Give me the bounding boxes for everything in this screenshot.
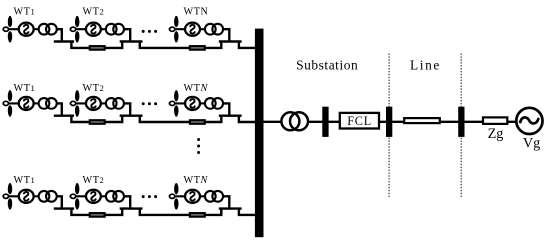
grid impedance Zg rect — [483, 117, 507, 124]
wire WT2 output drop (row 1) — [124, 29, 130, 42]
svg-text:WT2: WT2 — [83, 7, 105, 18]
junction bar at WT1 (row 2) — [54, 114, 74, 116]
svg-text:WTN: WTN — [184, 175, 209, 186]
svg-text:WT2: WT2 — [83, 175, 105, 186]
ellipsis dots between WT2 and WTN (row 1) — [142, 30, 145, 33]
svg-text:WT2: WT2 — [83, 83, 105, 94]
induction generator of WT1 (row 1) — [19, 23, 34, 36]
junction bar at WT2 (row 3) — [120, 207, 143, 209]
vertical ellipsis dots (more feeders) — [197, 138, 200, 141]
induction generator of WTN (row 1) — [185, 23, 200, 36]
breaker bar B3 (line receiving end) — [458, 107, 464, 137]
unit transformer of WT1 (row 1) — [39, 24, 50, 35]
induction generator of WT2 (row 1) — [86, 23, 101, 36]
wire WT2 output drop (row 3) — [124, 196, 130, 209]
feeder wire WTN to bus (row 1) — [239, 42, 257, 48]
wire generator to transformer (WTN row 2) — [200, 102, 206, 104]
cable impedance rect WT2-WTN (row 2) — [190, 120, 205, 124]
junction bar at WTN (row 3) — [219, 207, 242, 209]
feeder wire WTN to bus (row 3) — [239, 209, 257, 215]
junction bar at WT2 (row 2) — [120, 114, 143, 116]
grid source Vg circle — [516, 108, 542, 134]
junction bar at WTN (row 1) — [219, 40, 242, 42]
junction bar at WT1 (row 1) — [54, 40, 74, 42]
unit transformer of WT2 (row 3) — [106, 191, 117, 202]
wire generator to transformer (WTN row 1) — [200, 28, 206, 30]
svg-text:WT1: WT1 — [14, 7, 36, 18]
breaker bar B2 (line sending end) — [386, 107, 392, 137]
induction generator of WT1 (row 3) — [19, 190, 34, 203]
wire WTN output drop (row 3) — [223, 196, 229, 209]
feeder cable wire WT2-WTN (row 1) — [140, 42, 222, 48]
wind turbine rotor WT2 (row 2) — [70, 102, 87, 104]
ellipsis dots between WT2 and WTN (row 2) — [142, 102, 145, 105]
unit transformer of WTN (row 2) — [205, 98, 216, 109]
junction bar at WT2 (row 1) — [120, 40, 143, 42]
unit transformer of WTN (row 3) — [205, 191, 216, 202]
FCL box — [340, 113, 379, 129]
junction bar at WT1 (row 3) — [54, 207, 74, 209]
wire WTN output drop (row 2) — [223, 103, 229, 116]
feeder cable wire WT1-WT2 (row 3) — [71, 209, 122, 215]
wire generator to transformer (WTN row 3) — [200, 195, 206, 197]
unit transformer of WT2 (row 2) — [106, 98, 117, 109]
cable impedance rect WT2-WTN (row 3) — [190, 213, 205, 217]
wire WT1 output drop (row 1) — [57, 29, 62, 42]
wire generator to transformer (WT1 row 1) — [33, 28, 39, 30]
svg-text:WT1: WT1 — [14, 175, 36, 186]
feeder cable wire WT1-WT2 (row 2) — [71, 116, 122, 122]
wire WT1 output drop (row 3) — [57, 196, 62, 209]
feeder wire WTN to bus (row 2) — [239, 116, 257, 122]
collector busbar — [255, 29, 264, 238]
wind turbine rotor WTN (row 3) — [169, 195, 186, 197]
cable impedance rect WT1-WT2 (row 1) — [90, 46, 105, 50]
ellipsis dots between WT2 and WTN (row 3) — [142, 195, 145, 198]
wind turbine rotor WT2 (row 3) — [70, 195, 87, 197]
svg-text:Zg: Zg — [488, 126, 504, 142]
wire transformer to grid source — [308, 121, 517, 123]
induction generator of WT1 (row 2) — [19, 97, 34, 110]
dashed boundary line (substation/line) — [388, 54, 390, 199]
wind turbine rotor WT1 (row 2) — [2, 102, 19, 104]
wire bus to substation transformer — [264, 121, 282, 123]
cable impedance rect WT2-WTN (row 1) — [190, 46, 205, 50]
transmission line impedance rect — [404, 118, 440, 123]
svg-text:FCL: FCL — [347, 114, 372, 128]
cable impedance rect WT1-WT2 (row 2) — [90, 120, 105, 124]
feeder cable wire WT1-WT2 (row 1) — [71, 42, 122, 48]
wind turbine rotor WT2 (row 1) — [70, 28, 87, 30]
wire generator to transformer (WT2 row 2) — [101, 102, 107, 104]
induction generator of WT2 (row 3) — [86, 190, 101, 203]
unit transformer of WTN (row 1) — [205, 24, 216, 35]
wire WTN output drop (row 1) — [223, 29, 229, 42]
cable impedance rect WT1-WT2 (row 3) — [90, 213, 105, 217]
wire generator to transformer (WT2 row 1) — [101, 28, 107, 30]
wind turbine rotor WT1 (row 1) — [2, 28, 19, 30]
svg-text:Substation: Substation — [296, 57, 358, 72]
substation transformer T — [281, 112, 299, 130]
wire WT1 output drop (row 2) — [57, 103, 62, 116]
svg-text:WT1: WT1 — [14, 83, 36, 94]
wind turbine rotor WT1 (row 3) — [2, 195, 19, 197]
wind turbine rotor WTN (row 1) — [169, 28, 186, 30]
induction generator of WTN (row 3) — [185, 190, 200, 203]
unit transformer of WT1 (row 2) — [39, 98, 50, 109]
breaker bar B1 (substation) — [322, 107, 328, 137]
feeder cable wire WT2-WTN (row 3) — [140, 209, 222, 215]
junction bar at WTN (row 2) — [219, 114, 242, 116]
induction generator of WT2 (row 2) — [86, 97, 101, 110]
svg-text:WTN: WTN — [184, 83, 209, 94]
wire generator to transformer (WT1 row 3) — [33, 195, 39, 197]
dashed boundary line (line/grid) — [460, 54, 462, 199]
svg-text:Vg: Vg — [523, 135, 540, 151]
svg-text:WTN: WTN — [184, 7, 209, 18]
wire generator to transformer (WT2 row 3) — [101, 195, 107, 197]
induction generator of WTN (row 2) — [185, 97, 200, 110]
feeder cable wire WT2-WTN (row 2) — [140, 116, 222, 122]
wire WT2 output drop (row 2) — [124, 103, 130, 116]
unit transformer of WT2 (row 1) — [106, 24, 117, 35]
unit transformer of WT1 (row 3) — [39, 191, 50, 202]
svg-text:Line: Line — [410, 57, 441, 72]
wire generator to transformer (WT1 row 2) — [33, 102, 39, 104]
wind turbine rotor WTN (row 2) — [169, 102, 186, 104]
